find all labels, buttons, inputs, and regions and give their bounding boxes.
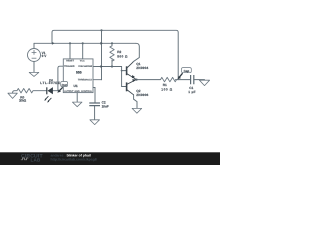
ground (left, R0)	[8, 93, 17, 98]
net flag Out	[57, 82, 67, 93]
svg-text:OUTPUT: OUTPUT	[64, 90, 73, 93]
wire: Q1 base	[122, 70, 127, 72]
svg-text:VCC: VCC	[80, 60, 85, 63]
junction dot at VCC pin stub on VCC rail	[82, 42, 84, 44]
svg-text:560 Ω: 560 Ω	[117, 55, 127, 59]
logo CIRCUIT	[21, 153, 44, 162]
merge arrow at (101.5,43.3)	[100, 42, 103, 45]
svg-text:LTL-307EE: LTL-307EE	[40, 82, 60, 86]
svg-text:100 Ω: 100 Ω	[161, 88, 172, 92]
junction dot R2/discharge	[111, 65, 113, 67]
wire: R0 to ground	[13, 91, 17, 94]
svg-text:Q1: Q1	[136, 62, 140, 66]
wire: C1 to ground	[194, 79, 205, 81]
svg-text:http://circuitlab.com/c/kpcg8: http://circuitlab.com/c/kpcg8	[51, 158, 97, 162]
label V1 9V	[42, 51, 47, 58]
svg-text:LAB: LAB	[31, 158, 42, 163]
label Q1 2N3904	[136, 62, 148, 70]
svg-text:R1: R1	[163, 83, 167, 87]
merge arrow at (101.5,66.5)	[100, 65, 103, 68]
svg-text:TRIGGER: TRIGGER	[64, 65, 75, 68]
svg-text:RESET: RESET	[66, 60, 74, 63]
wire: Q2 base	[122, 86, 127, 88]
label C2 10nF	[102, 101, 109, 109]
svg-text:2N3904: 2N3904	[136, 66, 148, 70]
wire: 555 gnd stub	[76, 93, 78, 103]
wire: R2 bottom lead	[111, 60, 113, 67]
wire: collector loop corner	[133, 43, 139, 61]
net flag Cap	[177, 68, 191, 80]
svg-text:U1: U1	[74, 84, 78, 88]
wire: R2 top lead	[111, 43, 113, 46]
IC U1 555 box	[63, 59, 93, 93]
svg-text:R2: R2	[117, 50, 121, 54]
wire: base bus vertical	[121, 67, 123, 87]
voltage source V1	[28, 49, 41, 62]
capacitor C1	[191, 75, 194, 84]
svg-text:DISCHARGE: DISCHARGE	[78, 65, 92, 68]
ground (Q2)	[132, 108, 142, 113]
transistor Q1 2N3904	[127, 62, 136, 79]
merge arrow at (53,43.3)	[52, 42, 55, 45]
svg-text:CONTROL: CONTROL	[81, 90, 92, 93]
resistor R2	[110, 46, 114, 61]
555 pin labels	[64, 60, 92, 93]
wire: discharge line	[93, 66, 122, 68]
wire: output line to R1	[137, 79, 161, 81]
wire: Q2 collector to ground	[134, 95, 137, 109]
svg-text:Out: Out	[62, 83, 67, 86]
junction dot output node	[136, 79, 138, 81]
wire: VCC lower rail	[34, 42, 136, 44]
wire: upper rail	[52, 30, 178, 79]
wire: reset pin stub	[69, 43, 71, 59]
svg-text:1 µF: 1 µF	[188, 90, 195, 94]
wire: LED to R0	[33, 90, 46, 92]
ground (C1)	[199, 80, 209, 85]
svg-text:C1: C1	[189, 86, 193, 90]
svg-text:C2: C2	[102, 101, 106, 105]
junction dot Q1 base	[121, 70, 123, 72]
resistor R1	[161, 77, 177, 81]
wire: trigger pin to node	[58, 66, 63, 91]
ground (C2)	[90, 120, 100, 125]
junction dot upper rail	[100, 29, 102, 31]
label D0 LTL-307EE	[40, 79, 60, 85]
wire: threshold stub	[93, 79, 102, 81]
svg-text:9 V: 9 V	[42, 55, 47, 59]
wire: vcc pin stub	[82, 43, 84, 59]
label R0 10 kΩ	[19, 96, 26, 102]
footer bar	[0, 152, 220, 165]
svg-text:2N3906: 2N3906	[136, 93, 148, 97]
junction dot at R2 top on VCC rail	[111, 42, 113, 44]
svg-text:Q2: Q2	[136, 89, 140, 93]
wire: control pin to C2	[93, 88, 95, 104]
wire: vertical x=101.5 rail to threshold	[101, 30, 103, 79]
svg-text:THRESHOLD: THRESHOLD	[78, 79, 92, 82]
junction dot at RESET stub on VCC rail	[69, 42, 71, 44]
transistor Q2 2N3906	[127, 80, 137, 95]
svg-text:andares : blinker of phail: andares : blinker of phail	[51, 154, 91, 158]
footer title	[51, 154, 97, 162]
svg-text:10 kΩ: 10 kΩ	[19, 99, 26, 103]
label R2 560Ω	[117, 50, 127, 58]
svg-text:Cap: Cap	[184, 70, 190, 73]
svg-text:GND: GND	[75, 90, 80, 93]
resistor R0	[17, 89, 33, 93]
LED D0	[44, 87, 53, 103]
label R1 100Ω	[161, 83, 172, 91]
wire: V1 top to rail	[33, 43, 35, 48]
wire: C2 bottom lead	[94, 106, 96, 120]
capacitor C2	[89, 103, 100, 106]
svg-text:10 nF: 10 nF	[102, 105, 109, 109]
ground (V1)	[29, 72, 39, 76]
wire: LED node to LED	[53, 90, 58, 92]
label C1 1µF	[188, 86, 195, 94]
svg-text:555: 555	[76, 71, 82, 75]
ground (555 GND)	[72, 102, 82, 107]
wire: R1 to cap node	[176, 79, 191, 81]
label Q2 2N3906	[136, 89, 148, 97]
wire: V1 bottom stub	[33, 62, 35, 73]
